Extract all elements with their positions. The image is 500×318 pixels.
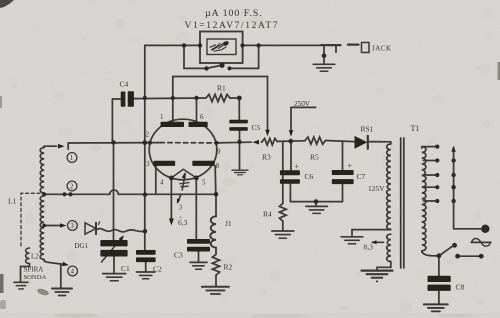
svg-text:+: + <box>179 215 182 221</box>
svg-text:J1: J1 <box>225 219 232 228</box>
svg-text:SPIRA: SPIRA <box>24 266 44 274</box>
svg-text:V1=12AV7/12AT7: V1=12AV7/12AT7 <box>185 21 280 31</box>
svg-text:R3: R3 <box>262 153 271 162</box>
svg-text:C2: C2 <box>153 265 162 274</box>
svg-text:4: 4 <box>160 179 164 187</box>
svg-text:+: + <box>348 161 353 170</box>
svg-text:6: 6 <box>200 113 204 121</box>
svg-text:µA 100 F.S.: µA 100 F.S. <box>205 8 263 19</box>
svg-text:R1: R1 <box>217 84 226 93</box>
svg-text:T1: T1 <box>411 124 420 133</box>
svg-text:250V: 250V <box>294 100 311 108</box>
svg-text:SONDA: SONDA <box>24 274 47 281</box>
svg-text:4: 4 <box>71 268 75 276</box>
svg-text:2: 2 <box>70 183 74 191</box>
svg-text:C7: C7 <box>357 172 366 181</box>
svg-text:C6: C6 <box>305 172 314 181</box>
svg-text:9: 9 <box>217 148 221 156</box>
svg-text:5: 5 <box>202 179 206 187</box>
svg-text:R2: R2 <box>224 263 233 272</box>
svg-text:125V: 125V <box>368 184 385 193</box>
svg-text:L1: L1 <box>8 197 17 206</box>
svg-text:3: 3 <box>146 160 150 168</box>
svg-text:8: 8 <box>216 162 220 170</box>
svg-text:3: 3 <box>179 204 183 212</box>
svg-text:RS1: RS1 <box>361 125 374 134</box>
svg-text:JACK: JACK <box>372 45 392 53</box>
svg-text:C8: C8 <box>456 283 465 292</box>
svg-text:DG1: DG1 <box>75 242 89 250</box>
svg-text:1: 1 <box>160 113 164 121</box>
svg-text:C5: C5 <box>252 123 261 132</box>
svg-text:R4: R4 <box>263 210 272 219</box>
svg-text:C1: C1 <box>121 264 130 273</box>
svg-text:C4: C4 <box>120 80 129 89</box>
svg-text:+: + <box>295 162 300 171</box>
svg-text:L2: L2 <box>31 253 39 261</box>
svg-text:R5: R5 <box>310 153 319 162</box>
svg-text:8,3: 8,3 <box>364 243 374 252</box>
svg-text:3: 3 <box>70 222 74 230</box>
svg-text:C3: C3 <box>174 251 183 260</box>
svg-text:2: 2 <box>146 131 150 139</box>
svg-text:1: 1 <box>70 154 74 162</box>
